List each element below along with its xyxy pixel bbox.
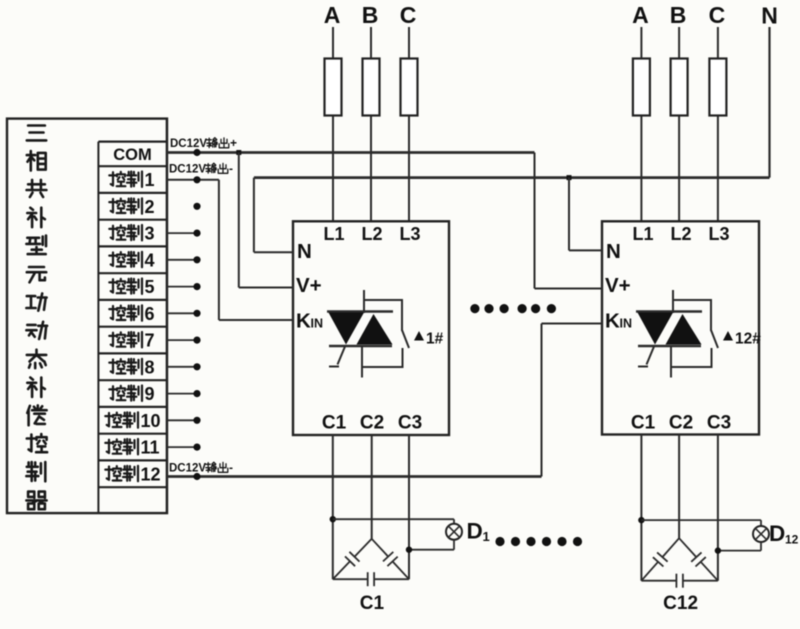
svg-text:IN: IN <box>311 317 324 331</box>
svg-text:N: N <box>297 240 312 263</box>
svg-text:8: 8 <box>145 357 155 377</box>
svg-text:C: C <box>400 2 417 28</box>
svg-text:3: 3 <box>145 224 155 244</box>
svg-text:DC12V: DC12V <box>169 463 206 475</box>
svg-text:V+: V+ <box>605 274 631 297</box>
svg-text:C: C <box>709 2 726 28</box>
svg-text:K: K <box>296 310 311 333</box>
svg-text:B: B <box>670 2 687 28</box>
svg-text:1: 1 <box>483 529 490 544</box>
svg-text:A: A <box>324 2 341 28</box>
svg-text:A: A <box>632 2 649 28</box>
svg-text:C2: C2 <box>669 413 693 434</box>
svg-text:DC12V: DC12V <box>169 164 206 176</box>
svg-text:1: 1 <box>145 170 155 190</box>
svg-text:4: 4 <box>145 250 155 270</box>
svg-text:DC12V: DC12V <box>170 138 207 150</box>
svg-text:D: D <box>467 519 483 544</box>
svg-text:C12: C12 <box>663 593 698 614</box>
svg-text:C3: C3 <box>398 413 422 434</box>
svg-text:COM: COM <box>113 146 152 164</box>
svg-text:L2: L2 <box>670 224 691 244</box>
svg-text:C1: C1 <box>360 593 385 614</box>
svg-text:V+: V+ <box>296 274 322 297</box>
svg-text:D: D <box>769 521 785 546</box>
svg-text:12: 12 <box>141 464 161 484</box>
svg-text:9: 9 <box>145 384 155 404</box>
svg-text:-: - <box>229 461 233 475</box>
svg-text:12#: 12# <box>735 331 761 348</box>
svg-text:C2: C2 <box>360 413 384 434</box>
svg-text:L3: L3 <box>399 224 420 244</box>
svg-text:2: 2 <box>145 197 155 217</box>
svg-text:B: B <box>362 2 379 28</box>
svg-text:7: 7 <box>145 331 155 351</box>
svg-text:N: N <box>761 3 778 29</box>
svg-text:L3: L3 <box>708 224 729 244</box>
svg-text:10: 10 <box>141 411 161 431</box>
svg-text:6: 6 <box>145 304 155 324</box>
svg-text:1#: 1# <box>426 331 444 348</box>
svg-text:L1: L1 <box>632 224 653 244</box>
svg-text:L1: L1 <box>323 224 344 244</box>
svg-text:+: + <box>230 136 237 150</box>
svg-text:L2: L2 <box>361 224 382 244</box>
svg-text:C1: C1 <box>631 413 656 434</box>
svg-text:11: 11 <box>141 438 160 458</box>
svg-text:IN: IN <box>620 317 633 331</box>
svg-text:N: N <box>606 240 621 263</box>
svg-text:-: - <box>229 162 233 176</box>
svg-text:K: K <box>605 310 620 333</box>
svg-text:C3: C3 <box>707 413 731 434</box>
svg-text:5: 5 <box>145 277 155 297</box>
svg-text:C1: C1 <box>322 413 347 434</box>
svg-text:12: 12 <box>785 533 799 547</box>
